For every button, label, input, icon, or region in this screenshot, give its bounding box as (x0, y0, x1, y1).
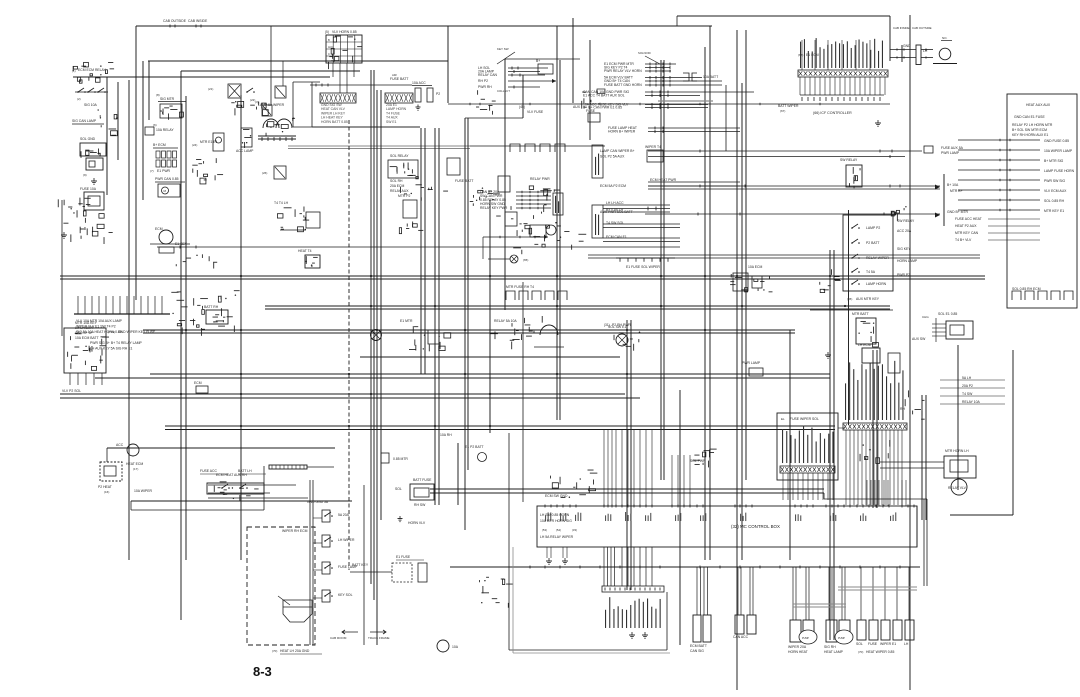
svg-text:10A BATT: 10A BATT (703, 75, 718, 79)
svg-text:LH 5A RELAY WIPER: LH 5A RELAY WIPER (540, 535, 574, 539)
svg-text:T4 5A: T4 5A (866, 270, 876, 274)
svg-text:KEY SOL: KEY SOL (338, 593, 353, 597)
svg-text:LH: LH (904, 642, 909, 646)
svg-text:E1: E1 (892, 642, 896, 646)
svg-text:CAN SIG: CAN SIG (690, 649, 704, 653)
svg-text:HORN VLV: HORN VLV (408, 521, 426, 525)
svg-text:FUSE: FUSE (586, 109, 596, 113)
svg-text:T4 SW: T4 SW (962, 392, 973, 396)
svg-text:10A ECM: 10A ECM (748, 265, 762, 269)
svg-text:(70): (70) (272, 649, 277, 653)
svg-text:SW RELAY: SW RELAY (897, 219, 915, 223)
svg-text:LAMP HORN: LAMP HORN (866, 282, 887, 286)
svg-text:5A 20A: 5A 20A (338, 513, 350, 517)
svg-text:E1 ACC T4 BATT AUX SOL: E1 ACC T4 BATT AUX SOL (583, 94, 625, 98)
svg-text:GND CAN E1 FUSE: GND CAN E1 FUSE (1014, 115, 1045, 119)
svg-text:LAMP CAN WIPER B+: LAMP CAN WIPER B+ (600, 149, 635, 153)
svg-text:ECM SW GND: ECM SW GND (545, 494, 568, 498)
svg-text:SOL P2 5A AUX: SOL P2 5A AUX (600, 155, 625, 159)
svg-text:B+ MTR SIG: B+ MTR SIG (1044, 159, 1064, 163)
svg-text:HEAT T4: HEAT T4 (298, 249, 312, 253)
svg-text:(54): (54) (556, 528, 561, 532)
svg-text:(T12): (T12) (108, 330, 115, 334)
svg-text:P2 HEAT: P2 HEAT (98, 485, 112, 489)
svg-text:PWR RELAY VLV HORN: PWR RELAY VLV HORN (604, 69, 642, 73)
svg-text:PWR SIG B+ B+ T4 RELAY LAMP: PWR SIG B+ B+ T4 RELAY LAMP (90, 341, 143, 345)
svg-text:MTR KEY CAN: MTR KEY CAN (955, 231, 979, 235)
svg-text:LH SW 0.85 HORN: LH SW 0.85 HORN (540, 513, 570, 517)
svg-text:PUMP: PUMP (802, 637, 809, 640)
svg-text:SOL RELAY: SOL RELAY (390, 154, 409, 158)
svg-text:NO.: NO. (942, 36, 948, 40)
svg-text:LH WIPER: LH WIPER (338, 538, 355, 542)
svg-text:T4 SW SOL: T4 SW SOL (606, 221, 624, 225)
svg-text:B+: B+ (536, 59, 540, 63)
svg-text:(67): (67) (780, 109, 785, 113)
svg-text:FUSE WIPER SOL: FUSE WIPER SOL (790, 417, 819, 421)
svg-text:CAB OUTSIDE: CAB OUTSIDE (163, 19, 187, 23)
svg-text:RELAY P2 LH HORN MTR: RELAY P2 LH HORN MTR (1012, 123, 1053, 127)
svg-text:RH: RH (900, 407, 905, 411)
svg-text:B+ 10A: B+ 10A (947, 183, 959, 187)
svg-text:(2): (2) (77, 97, 81, 101)
svg-text:(9): (9) (83, 173, 87, 177)
svg-text:HORN B+ WIPER: HORN B+ WIPER (608, 130, 636, 134)
svg-text:SIG RH: SIG RH (824, 645, 836, 649)
svg-text:(24): (24) (192, 143, 197, 147)
svg-text:LH ECM: LH ECM (858, 343, 871, 347)
svg-text:WIPER RH ECM: WIPER RH ECM (282, 529, 308, 533)
svg-text:(26): (26) (262, 171, 267, 175)
svg-text:(53): (53) (542, 528, 547, 532)
svg-text:ECM HEAT AUX RH: ECM HEAT AUX RH (216, 473, 247, 477)
svg-text:HORN HEAT: HORN HEAT (788, 650, 808, 654)
svg-text:SOL GND: SOL GND (80, 137, 96, 141)
svg-text:PWR RH: PWR RH (478, 85, 492, 89)
svg-text:VLV ECM AUX: VLV ECM AUX (1044, 189, 1067, 193)
svg-text:SIG 10A: SIG 10A (84, 103, 98, 107)
svg-text:SOL E1 0.85: SOL E1 0.85 (938, 312, 957, 316)
svg-text:SW RELAY: SW RELAY (840, 158, 858, 162)
svg-text:WIPER VLV E1 SW T4 P2: WIPER VLV E1 SW T4 P2 (76, 325, 116, 329)
svg-text:P2: P2 (436, 92, 440, 96)
svg-text:HEAT LAMP: HEAT LAMP (824, 650, 844, 654)
svg-text:5A LH: 5A LH (962, 376, 972, 380)
svg-text:HORN BATT 0.85: HORN BATT 0.85 (321, 120, 348, 124)
svg-text:(16): (16) (104, 490, 109, 494)
svg-text:10A RELAY: 10A RELAY (156, 128, 174, 132)
svg-text:(6): (6) (153, 123, 157, 127)
svg-text:GND B+ MTR: GND B+ MTR (947, 210, 969, 214)
svg-text:CAB INSIDE: CAB INSIDE (188, 19, 208, 23)
svg-text:CAB OUTSIDE: CAB OUTSIDE (912, 26, 932, 30)
svg-text:MTR BATT: MTR BATT (852, 312, 869, 316)
svg-text:(17): (17) (133, 467, 138, 471)
svg-text:SIG CAN LAMP: SIG CAN LAMP (72, 119, 97, 123)
svg-text:M: M (164, 189, 167, 193)
svg-text:MTR FUSE RH T4: MTR FUSE RH T4 (506, 285, 534, 289)
svg-text:RELAY WIPER: RELAY WIPER (866, 256, 889, 260)
svg-text:WIPER 20A: WIPER 20A (788, 645, 807, 649)
svg-text:20A P2: 20A P2 (962, 384, 973, 388)
svg-text:FUSE ACC HEAT: FUSE ACC HEAT (955, 217, 982, 221)
svg-text:RELAY VLV: RELAY VLV (948, 486, 967, 490)
svg-text:LAMP P2: LAMP P2 (866, 226, 880, 230)
svg-text:PWR LAMP: PWR LAMP (742, 361, 761, 365)
svg-text:B+ 0.85 LH: B+ 0.85 LH (606, 208, 624, 212)
svg-text:LH AUX KEY 5A SIG RH E1: LH AUX KEY 5A SIG RH E1 (90, 347, 132, 351)
svg-text:(3): (3) (255, 100, 259, 104)
svg-text:ECM BATT: ECM BATT (690, 644, 707, 648)
svg-text:LAMP FUSE HORN: LAMP FUSE HORN (1044, 169, 1075, 173)
svg-text:FUSE BATT: FUSE BATT (455, 179, 473, 183)
svg-text:FUSE ACC: FUSE ACC (200, 469, 218, 473)
svg-text:HORN LAMP: HORN LAMP (897, 259, 918, 263)
svg-text:RELAY 10A: RELAY 10A (962, 400, 981, 404)
svg-text:HEAT WIPER 0.85: HEAT WIPER 0.85 (866, 650, 894, 654)
svg-text:RH SW: RH SW (414, 503, 426, 507)
svg-text:(70): (70) (858, 650, 863, 654)
svg-text:SOLNOID: SOLNOID (638, 51, 651, 55)
svg-text:10A MTR HORN SIG: 10A MTR HORN SIG (540, 519, 572, 523)
svg-text:T4 T4 LH: T4 T4 LH (274, 201, 289, 205)
svg-text:RELAY KEY PWR: RELAY KEY PWR (480, 206, 508, 210)
svg-text:PWR LAMP: PWR LAMP (941, 151, 960, 155)
svg-text:PWR SW SIG: PWR SW SIG (1044, 179, 1065, 183)
svg-text:FUSE BATT GND HORN: FUSE BATT GND HORN (604, 83, 642, 87)
svg-text:HEAT ECM: HEAT ECM (126, 462, 143, 466)
svg-text:SOL: SOL (395, 487, 402, 491)
svg-text:0.85 MTR: 0.85 MTR (393, 457, 408, 461)
svg-text:MTR KEY E1: MTR KEY E1 (1044, 209, 1064, 213)
svg-text:CAN ACC: CAN ACC (733, 635, 749, 639)
svg-text:WIPER T4: WIPER T4 (645, 145, 661, 149)
svg-text:E1 P2 BATT: E1 P2 BATT (465, 445, 484, 449)
svg-text:E1 PWR: E1 PWR (157, 169, 171, 173)
svg-text:SOL 0.85 RH ECM: SOL 0.85 RH ECM (1012, 287, 1041, 291)
svg-text:RELAY PWR: RELAY PWR (530, 177, 550, 181)
svg-text:VLV FUSE: VLV FUSE (527, 110, 544, 114)
svg-text:CHG: CHG (922, 315, 929, 319)
svg-text:MTR P2: MTR P2 (398, 194, 411, 198)
svg-text:HEAT AUX AUX: HEAT AUX AUX (1026, 103, 1051, 107)
svg-text:ACC 20A: ACC 20A (897, 229, 912, 233)
svg-text:FUSE BATT: FUSE BATT (390, 77, 408, 81)
svg-text:ECM HEAT PWR: ECM HEAT PWR (650, 178, 677, 182)
svg-text:CAB INSIDE: CAB INSIDE (893, 26, 909, 30)
svg-text:20A ECM: 20A ECM (390, 184, 404, 188)
svg-text:COLLECT: COLLECT (497, 89, 510, 93)
svg-text:SOL RH: SOL RH (390, 179, 403, 183)
svg-text:10A ECM BATT: 10A ECM BATT (75, 336, 99, 340)
svg-text:KEY RH HORN AUX E1: KEY RH HORN AUX E1 (1012, 133, 1048, 137)
svg-text:ECM 5A P2 ECM: ECM 5A P2 ECM (600, 184, 626, 188)
svg-text:RELAY 5A 10A: RELAY 5A 10A (494, 319, 517, 323)
svg-text:FUSE 10A: FUSE 10A (80, 187, 97, 191)
svg-text:SOL: SOL (856, 642, 863, 646)
svg-text:LH: LH (923, 49, 928, 53)
svg-text:(1): (1) (72, 69, 76, 73)
svg-text:T4 B+ VLV: T4 B+ VLV (955, 238, 972, 242)
svg-text:(21): (21) (208, 87, 213, 91)
svg-text:ECM: ECM (155, 227, 163, 231)
svg-text:SW E1: SW E1 (386, 120, 397, 124)
svg-text:KEY SW: KEY SW (497, 47, 509, 51)
svg-text:SOL PWR: SOL PWR (690, 459, 706, 463)
svg-text:E1 FUSE: E1 FUSE (396, 555, 411, 559)
svg-text:TRACK FRAME: TRACK FRAME (368, 636, 390, 640)
svg-text:10A WIPER: 10A WIPER (134, 489, 152, 493)
svg-text:MTR B+: MTR B+ (950, 189, 963, 193)
svg-text:BATT KEY: BATT KEY (352, 563, 369, 567)
svg-text:SOL SW E1: SOL SW E1 (608, 325, 626, 329)
svg-text:B+ SOL SW MTR ECM: B+ SOL SW MTR ECM (1012, 128, 1047, 132)
svg-text:BATT RH: BATT RH (204, 305, 219, 309)
svg-text:LH LH ACC: LH LH ACC (606, 201, 624, 205)
svg-text:(55): (55) (847, 297, 852, 301)
svg-text:SIG MTR: SIG MTR (160, 97, 175, 101)
svg-text:(45): (45) (519, 105, 525, 109)
svg-text:HEAT LH 20A GND: HEAT LH 20A GND (280, 649, 310, 653)
svg-text:PWR CAN 0.85: PWR CAN 0.85 (155, 177, 179, 181)
svg-text:SIG KEY: SIG KEY (897, 247, 911, 251)
svg-text:MTR HORN LH: MTR HORN LH (945, 449, 969, 453)
svg-text:ECM: ECM (194, 381, 202, 385)
svg-text:GND GND 5A: GND GND 5A (307, 500, 329, 504)
svg-text:ACC: ACC (116, 443, 124, 447)
svg-text:10A WIPER LAMP: 10A WIPER LAMP (1044, 149, 1073, 153)
svg-text:E1 MTR: E1 MTR (400, 319, 413, 323)
svg-text:HEAT P2 AUX: HEAT P2 AUX (955, 224, 977, 228)
svg-text:MTR E1 E1: MTR E1 E1 (200, 140, 218, 144)
svg-text:CAB ROOM: CAB ROOM (330, 636, 347, 640)
svg-text:10A: 10A (452, 645, 459, 649)
svg-text:AUX MTR KEY: AUX MTR KEY (856, 297, 880, 301)
svg-text:AUX SW: AUX SW (912, 337, 926, 341)
svg-text:RELAY AUX: RELAY AUX (390, 189, 409, 193)
svg-text:(33): (33) (572, 528, 577, 532)
svg-text:C: C (328, 52, 330, 56)
svg-text:AUX: AUX (573, 105, 581, 109)
svg-text:GND WIPER KEY FUSE: GND WIPER KEY FUSE (118, 330, 156, 334)
svg-text:BATT FUSE: BATT FUSE (413, 478, 432, 482)
svg-text:WIPER: WIPER (880, 642, 892, 646)
svg-text:E1 KEY: E1 KEY (175, 242, 188, 246)
svg-text:E1 FUSE SOL WIPER: E1 FUSE SOL WIPER (626, 265, 660, 269)
svg-text:ECM ECM RELAY: ECM ECM RELAY (78, 68, 107, 72)
svg-text:(5): (5) (325, 30, 329, 34)
svg-text:FUSE AUX 5A: FUSE AUX 5A (941, 146, 964, 150)
svg-text:ACC LAMP: ACC LAMP (236, 149, 254, 153)
svg-text:VLV P2 SOL: VLV P2 SOL (62, 389, 81, 393)
svg-text:GND: GND (903, 44, 911, 48)
svg-text:10A RH: 10A RH (440, 433, 452, 437)
svg-text:BATT WIPER: BATT WIPER (778, 104, 799, 108)
svg-text:SOL 0.85 RH: SOL 0.85 RH (1044, 199, 1065, 203)
svg-text:VLV 10A MTR 10A AUX LAMP: VLV 10A MTR 10A AUX LAMP (76, 319, 123, 323)
svg-text:GND FUSE 0.85: GND FUSE 0.85 (1044, 139, 1069, 143)
svg-text:PWR P2: PWR P2 (897, 273, 910, 277)
svg-text:FUSE: FUSE (868, 642, 878, 646)
svg-text:(66) ICF CONTROLLER: (66) ICF CONTROLLER (813, 111, 852, 115)
svg-text:EL: EL (781, 417, 785, 421)
svg-text:PUMP: PUMP (838, 637, 845, 640)
svg-text:8-3: 8-3 (253, 664, 272, 679)
svg-text:P2 BATT: P2 BATT (866, 241, 880, 245)
svg-text:10A ACC: 10A ACC (412, 81, 426, 85)
svg-text:(7): (7) (150, 169, 154, 173)
svg-text:B+ ECM: B+ ECM (153, 143, 166, 147)
svg-text:(32) MC CONTROL BOX: (32) MC CONTROL BOX (731, 524, 780, 529)
svg-text:(65): (65) (523, 258, 528, 262)
svg-text:RH P2: RH P2 (478, 79, 488, 83)
svg-text:ECM CAN E1: ECM CAN E1 (606, 235, 627, 239)
svg-text:RELAY CAN: RELAY CAN (478, 73, 497, 77)
svg-text:B: B (328, 38, 330, 42)
svg-text:VLV HORN 0.85: VLV HORN 0.85 (332, 30, 357, 34)
